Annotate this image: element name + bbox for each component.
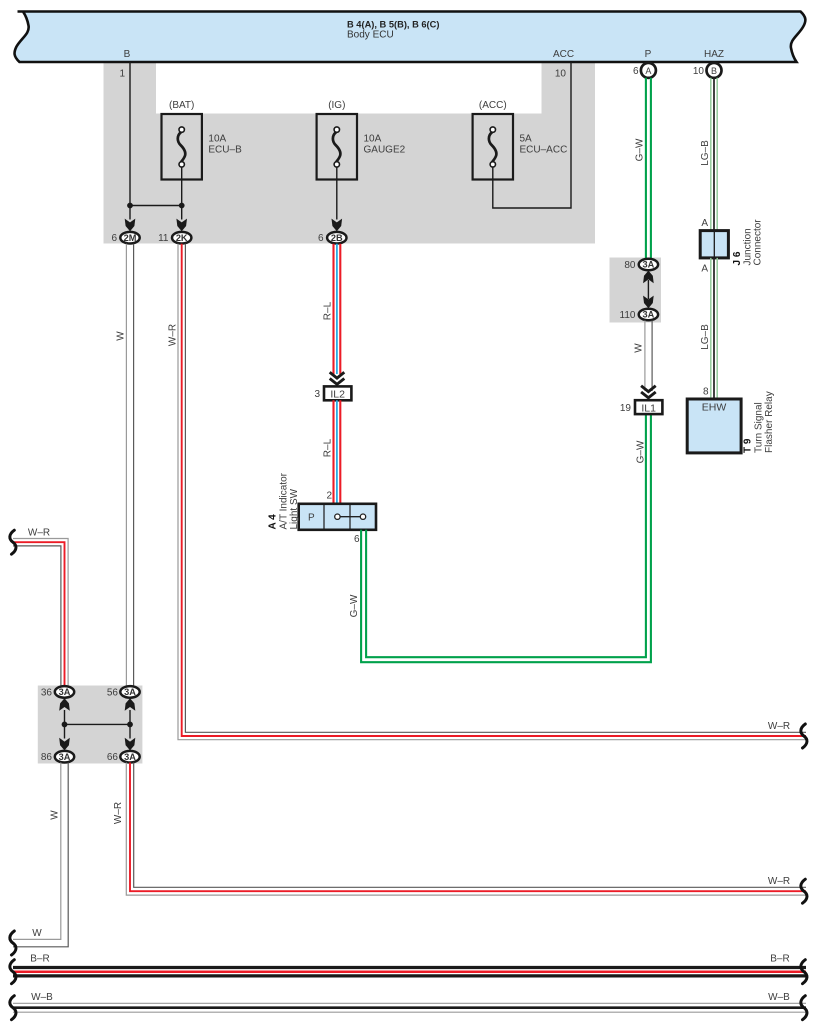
svg-text:W: W [634,343,645,353]
fuse ECU–B 10A (BAT) [162,114,202,180]
svg-text:IL2: IL2 [330,389,345,401]
fuse GAUGE2 10A (IG) [317,114,357,180]
connector IL2 [324,386,351,400]
arrow down into 86 [59,738,70,751]
svg-text:P: P [308,512,315,523]
torn edge [10,530,16,554]
svg-text:10A: 10A [208,134,226,145]
torn edge of W-R wire [801,724,807,748]
svg-text:2B: 2B [331,233,343,243]
torn W-R wire from left edge to 3A pin 36 [13,539,68,688]
svg-text:6: 6 [633,66,639,77]
svg-text:3A: 3A [59,752,71,762]
wire W-R from 66 to right page edge [126,763,806,896]
wire W from 86 to left page edge [13,763,61,940]
T9 turn signal flasher relay (EHW) [687,399,741,453]
connector 2B [327,232,346,244]
A4 A/T indicator light switch [299,504,376,530]
svg-text:3A: 3A [643,310,655,320]
svg-text:10A: 10A [364,134,382,145]
svg-text:B: B [711,66,717,76]
svg-text:3A: 3A [643,260,655,270]
wire W from 2M to 3A pin 56 [125,244,127,687]
svg-text:ECU–B: ECU–B [208,145,242,156]
torn edge [801,879,807,903]
svg-text:LG–B: LG–B [700,140,711,166]
wire from fuse GAUGE2 to connector 2B [336,167,338,220]
svg-text:B: B [124,49,131,60]
torn edge right [801,960,807,984]
svg-text:(IG): (IG) [328,100,345,111]
svg-text:A: A [701,264,708,275]
svg-text:A/T Indicator: A/T Indicator [279,472,290,529]
connector IL1 arrow [641,386,656,392]
svg-text:R–L: R–L [323,438,334,457]
connector 3A (80) [639,259,658,271]
junction node bus B/BAT [130,205,182,207]
wire LG-B from J6 to T9 flasher relay [710,258,712,399]
connector IL2 arrow [330,372,345,378]
torn edge left [10,960,16,984]
wire G-W from A to 3A pin 80 [645,78,647,259]
svg-text:HAZ: HAZ [704,49,724,60]
svg-text:A 4: A 4 [268,514,279,530]
svg-text:Connector: Connector [753,219,764,266]
node at 36/86 leg [62,722,68,728]
connector IL1 [635,400,662,414]
svg-text:2M: 2M [124,233,137,243]
svg-text:Light SW: Light SW [289,488,300,529]
svg-text:B 4(A), B 5(B), B 6(C): B 4(A), B 5(B), B 6(C) [347,19,439,29]
connector 2M [120,232,139,244]
svg-text:Turn Signal: Turn Signal [754,402,765,453]
wire W from 3A 110 to IL1 [644,321,646,392]
arrow up into 56 [125,698,136,711]
svg-text:10: 10 [693,66,705,77]
svg-text:1: 1 [119,69,125,80]
connector 3A (56) [120,686,139,698]
svg-text:10: 10 [555,69,567,80]
wire R-L from 2B to IL2 [332,244,334,374]
svg-text:W: W [50,810,61,820]
svg-text:3: 3 [314,389,320,400]
connector pair arrows [643,271,654,284]
wire W-B across page [13,1002,806,1004]
svg-text:EHW: EHW [702,402,727,414]
wire W-R from 2K to right page edge [178,244,806,740]
svg-text:G–W: G–W [349,594,360,617]
svg-text:36: 36 [41,687,53,698]
svg-text:Flasher Relay: Flasher Relay [764,391,775,453]
svg-text:3A: 3A [124,752,136,762]
node at 56/66 leg [127,722,133,728]
svg-text:6: 6 [318,233,324,244]
svg-text:(ACC): (ACC) [479,100,507,111]
svg-text:ACC: ACC [553,49,574,60]
Body ECU banner B 4(A), B 5(B), B 6(C) [15,12,806,63]
svg-text:W–R: W–R [768,721,790,732]
svg-text:11: 11 [158,233,169,244]
node at BAT fuse output [179,203,185,209]
svg-text:6: 6 [111,233,117,244]
wire R-L from IL2 to A4 pin 2 [332,400,334,503]
svg-text:(BAT): (BAT) [169,100,194,111]
svg-text:2: 2 [326,491,332,502]
connector 3A (66) [120,751,139,763]
wire LG-B from B to J6 [710,78,712,231]
arrow down into 66 [125,738,136,751]
svg-text:5A: 5A [520,134,533,145]
svg-text:8: 8 [703,387,709,398]
svg-text:W: W [116,331,127,341]
connector 2B arrow [332,219,343,232]
svg-text:LG–B: LG–B [700,324,711,350]
torn edge left [10,996,16,1020]
svg-text:ECU–ACC: ECU–ACC [520,145,568,156]
svg-text:Body ECU: Body ECU [347,30,394,41]
connector circle A (P) [641,63,656,78]
fuse block shaded background [104,62,596,244]
connector 2M arrow [125,219,136,232]
svg-text:W–B: W–B [31,992,53,1003]
wire from fuse ECU-B to connector 2K [181,167,183,220]
wire B-R across page [13,966,806,969]
svg-text:G–W: G–W [635,138,646,161]
svg-text:56: 56 [107,687,119,698]
svg-text:6: 6 [354,534,360,545]
svg-text:G–W: G–W [636,440,647,463]
svg-text:86: 86 [41,752,53,763]
svg-text:IL1: IL1 [641,402,656,414]
svg-text:66: 66 [107,752,119,763]
shaded background of 3A connector pair 80/110 [610,258,662,323]
node at B wire [127,203,133,209]
svg-text:T 9: T 9 [743,438,754,453]
connector 3A (110) [639,309,658,321]
svg-text:P: P [645,49,652,60]
svg-text:19: 19 [620,403,632,414]
svg-text:W–R: W–R [113,802,124,824]
wire G-W from A4 pin 6 to IL1 [361,414,651,662]
torn edge of W wire [10,931,16,955]
svg-text:80: 80 [624,260,636,271]
torn edge right [801,996,807,1020]
connector 3A (36) [55,686,74,698]
svg-text:3A: 3A [59,687,71,697]
svg-text:3A: 3A [124,687,136,697]
svg-text:R–L: R–L [323,301,334,320]
svg-text:B–R: B–R [30,954,49,965]
svg-text:110: 110 [620,310,636,321]
shaded background of 3A connector block 36/56/86/66 [38,686,143,764]
svg-text:W–R: W–R [28,528,50,539]
svg-text:A: A [701,218,708,229]
svg-text:GAUGE2: GAUGE2 [364,145,406,156]
switch contact [341,516,361,518]
svg-text:W–R: W–R [168,324,179,346]
svg-text:W–R: W–R [768,876,790,887]
arrow up into 36 [59,698,70,711]
svg-text:A: A [645,66,651,76]
junction connector J6 [700,231,728,258]
wire B from Body ECU pin 1 [129,62,131,220]
fuse ECU–ACC 5A (ACC) [473,114,513,180]
svg-text:W: W [32,928,42,939]
connector 2K arrow [176,219,187,232]
svg-text:2K: 2K [176,233,188,243]
connector circle B (HAZ) [707,63,722,78]
svg-text:B–R: B–R [770,954,789,965]
svg-text:W–B: W–B [768,992,790,1003]
connector 3A (86) [55,751,74,763]
wire ACC from fuse ECU-ACC to Body ECU pin 10 [493,62,571,208]
internal bus of 3A block [64,710,66,739]
svg-text:J 6: J 6 [732,251,743,265]
connector 2K [172,232,191,244]
